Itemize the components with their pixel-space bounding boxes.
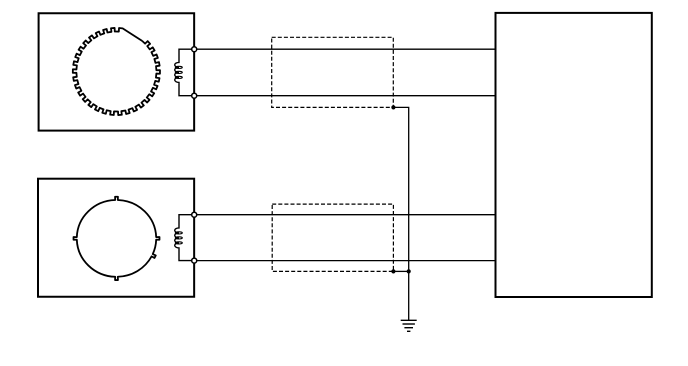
pickup coil L2 [175,215,194,261]
terminal pin 2 of sensor 2 [192,258,197,263]
sensor 2 housing box [38,179,194,297]
junction dot: shield 2 corner [391,269,395,273]
sensor 1 housing box [39,13,195,130]
shielded cable screen 2 (dashed) [272,204,393,271]
terminal pin 2 of sensor 1 [192,93,197,98]
terminal pin 1 of sensor 2 [192,212,197,217]
shield drain wire to ground [393,107,408,320]
shield 2 drain link wire [393,270,408,272]
wire: sensor 2 signal high [197,214,496,216]
junction dot: drain line tap [407,269,411,273]
shielded cable screen 1 (dashed) [272,37,394,107]
pickup coil L1 [175,49,194,95]
wire: sensor 1 signal high [197,48,496,50]
slotted trigger wheel [74,197,160,280]
earth ground symbol [401,320,417,331]
wire: sensor 1 signal low [197,95,496,97]
wire: sensor 2 signal low [197,260,496,262]
junction dot: shield 1 to drain [391,105,395,109]
terminal pin 1 of sensor 1 [192,47,197,52]
ECU / control unit box [496,13,652,297]
reluctor toothed wheel (missing-tooth gap top-right) [73,28,160,115]
